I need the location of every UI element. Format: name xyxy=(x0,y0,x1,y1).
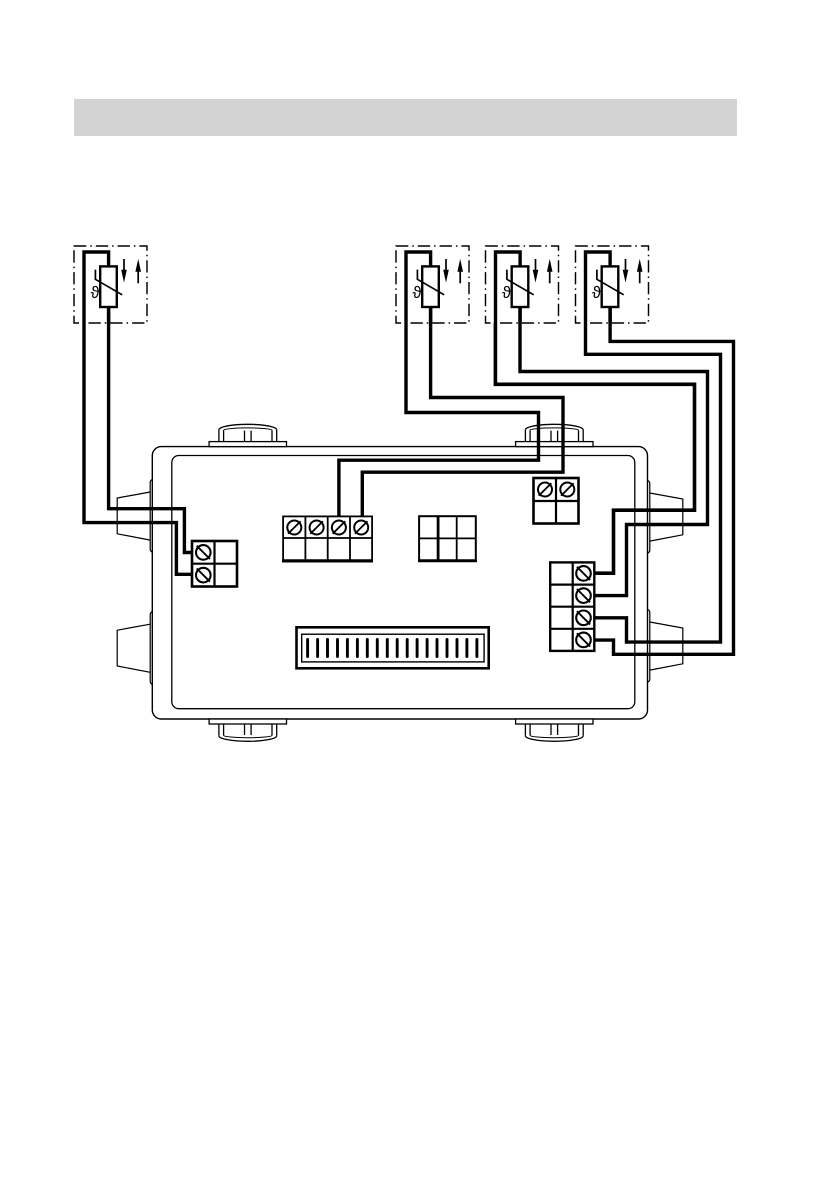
connector J1 pins xyxy=(308,640,477,657)
wire W2: sensor B1 pin 1 to terminal X1:2 xyxy=(84,323,194,574)
terminal X2:1 screw xyxy=(287,521,301,535)
terminal X1:2 screw xyxy=(196,568,211,583)
terminal X4:1 screw xyxy=(538,483,552,497)
terminal X3:4 screw xyxy=(576,633,591,648)
cable gland top right xyxy=(516,424,593,446)
junction box inner wall xyxy=(172,456,635,709)
connector J1 (multi-pin header, bottom centre) xyxy=(297,627,489,668)
sensor B1 (thermistor probe, top left) xyxy=(74,246,147,323)
mounting flange upper left xyxy=(117,479,153,552)
wire W7: sensor B4 pin 1 to terminal X3:3 xyxy=(586,323,721,642)
terminal block X3 (4-pole, right) xyxy=(550,562,594,651)
wire W8: sensor B4 pin 2 to terminal X3:4 xyxy=(594,307,734,654)
wire W5: sensor B3 pin 1 to terminal X3:1 xyxy=(495,323,694,573)
wire W6: sensor B3 pin 2 to terminal X3:2 xyxy=(520,307,708,596)
wire W3: sensor B2 pin 1 to terminal X2:3 xyxy=(339,323,539,518)
wire W4: sensor B2 pin 2 to terminal X2:4 xyxy=(362,307,563,518)
cable gland bottom right xyxy=(516,719,593,741)
terminal block X2 (4-pole strip, middle) xyxy=(282,516,373,561)
sensor B3 (thermistor probe) xyxy=(486,246,559,323)
terminal block X1 (2-pole, left) xyxy=(192,541,237,587)
terminal X3:2 screw xyxy=(576,588,591,603)
mounting flange upper right xyxy=(647,480,683,553)
component grid (3x2 relay/jumper field, centre) xyxy=(418,516,477,561)
junction box outer wall xyxy=(152,447,647,719)
sensor B4 (thermistor probe, top right) xyxy=(576,246,649,323)
title bar (grey band) xyxy=(74,99,737,136)
sensor B2 (thermistor probe) xyxy=(396,246,469,323)
terminal X2:3 screw xyxy=(332,521,346,535)
terminal X2:2 screw xyxy=(310,521,324,535)
wire W1: sensor B1 pin 2 to terminal X1:1 xyxy=(109,307,194,553)
terminal X3:1 screw xyxy=(576,566,591,581)
mounting flange lower left xyxy=(117,612,153,685)
terminal X2:4 screw xyxy=(354,521,368,535)
terminal X3:3 screw xyxy=(576,611,591,626)
mounting flange lower right xyxy=(647,609,683,682)
cable gland top left xyxy=(209,424,286,446)
terminal block X4 (2-pole, top right) xyxy=(534,478,579,524)
terminal X1:1 screw xyxy=(196,545,211,560)
cable gland bottom left xyxy=(209,719,286,741)
terminal X4:2 screw xyxy=(560,483,574,497)
